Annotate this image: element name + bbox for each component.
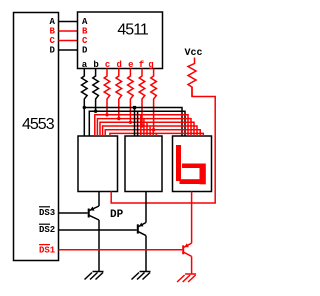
display3 common pin wire [191, 192, 193, 244]
transistor Q2 [138, 223, 146, 272]
display2 drop wire 8 [155, 133, 157, 136]
svg-text:4511: 4511 [117, 22, 149, 39]
label DS2 [39, 224, 55, 235]
wire DS1 [59, 249, 183, 251]
ground GND3 [177, 274, 196, 282]
display2 common pin wire [145, 192, 147, 223]
resistor Re [128, 69, 134, 123]
segment bus line 5 (e) [100, 122, 194, 136]
IC U1 4511 decoder box [78, 12, 163, 69]
svg-text:A: A [82, 17, 88, 27]
wire B 4553 to 4511 [59, 30, 78, 32]
svg-text:B: B [50, 27, 56, 37]
display2 drop wire 3 [140, 115, 142, 136]
segment bus line 2 (b) [89, 111, 185, 136]
transistor Q1 [89, 206, 99, 272]
wire C 4553 to 4511 [59, 40, 78, 42]
display DSP3 box [173, 136, 212, 192]
svg-text:C: C [50, 36, 56, 46]
junction node g [152, 128, 155, 131]
resistor R-Vcc [188, 58, 196, 97]
display1 common pin wire [98, 192, 100, 207]
wire DS3 [59, 212, 88, 214]
segment bus line 3 (c) [95, 115, 188, 136]
display2 drop wire 6 [149, 126, 151, 136]
svg-text:C: C [82, 36, 88, 46]
resistor Rg [151, 69, 157, 130]
display2 drop wire 4 [143, 119, 145, 136]
wire a into display 1 [83, 108, 85, 137]
svg-text:D: D [82, 46, 88, 56]
IC U2 4553 counter box [14, 13, 59, 261]
display2 drop wire 2 [137, 111, 139, 136]
resistor Rd [116, 69, 122, 119]
ground GND2 [132, 272, 151, 280]
svg-text:DP: DP [110, 209, 124, 221]
junction node b [94, 110, 97, 113]
resistor Rc [104, 69, 110, 115]
svg-text:DS3: DS3 [39, 208, 55, 218]
display DSP1 box [78, 136, 118, 192]
transistor Q3 [183, 243, 191, 274]
segment bus line 8 (dp) [110, 133, 203, 136]
seven segment digit b in display 3 [176, 145, 206, 184]
segment bus line 1 (a) [84, 108, 182, 137]
svg-text:4553: 4553 [22, 116, 55, 133]
display2 drop wire 1 [134, 108, 136, 137]
wire A 4553 to 4511 [59, 21, 78, 23]
display DSP2 box [125, 136, 162, 192]
svg-text:DS1: DS1 [39, 246, 56, 256]
junction node f [140, 124, 143, 127]
svg-text:g: g [148, 60, 153, 70]
junction node a [83, 106, 86, 109]
segment bus line 4 (d) [97, 119, 191, 136]
resistor Rb [93, 69, 99, 112]
display1 DP pin wire + Vcc feed line [111, 87, 215, 203]
svg-text:DS2: DS2 [39, 225, 55, 235]
svg-text:D: D [50, 46, 56, 56]
label DS1 [39, 245, 56, 256]
resistor Rf [139, 69, 145, 127]
segment bus line 7 (g) [105, 130, 200, 136]
wire DS2 [59, 229, 137, 231]
junction node d [117, 117, 120, 120]
segment bus line 6 (f) [103, 126, 197, 136]
svg-text:B: B [82, 27, 88, 37]
resistor Ra [82, 69, 88, 108]
svg-text:Vcc: Vcc [185, 48, 203, 59]
junction node e [129, 121, 132, 124]
svg-text:A: A [50, 17, 56, 27]
display2 drop wire 5 [146, 122, 148, 136]
ground GND1 [85, 272, 104, 280]
junction node c [105, 113, 108, 116]
display2 drop wire 7 [152, 130, 154, 136]
wire D 4553 to 4511 [59, 49, 78, 51]
label DS3 [39, 207, 55, 218]
junction node display2 pin1 [133, 106, 136, 109]
